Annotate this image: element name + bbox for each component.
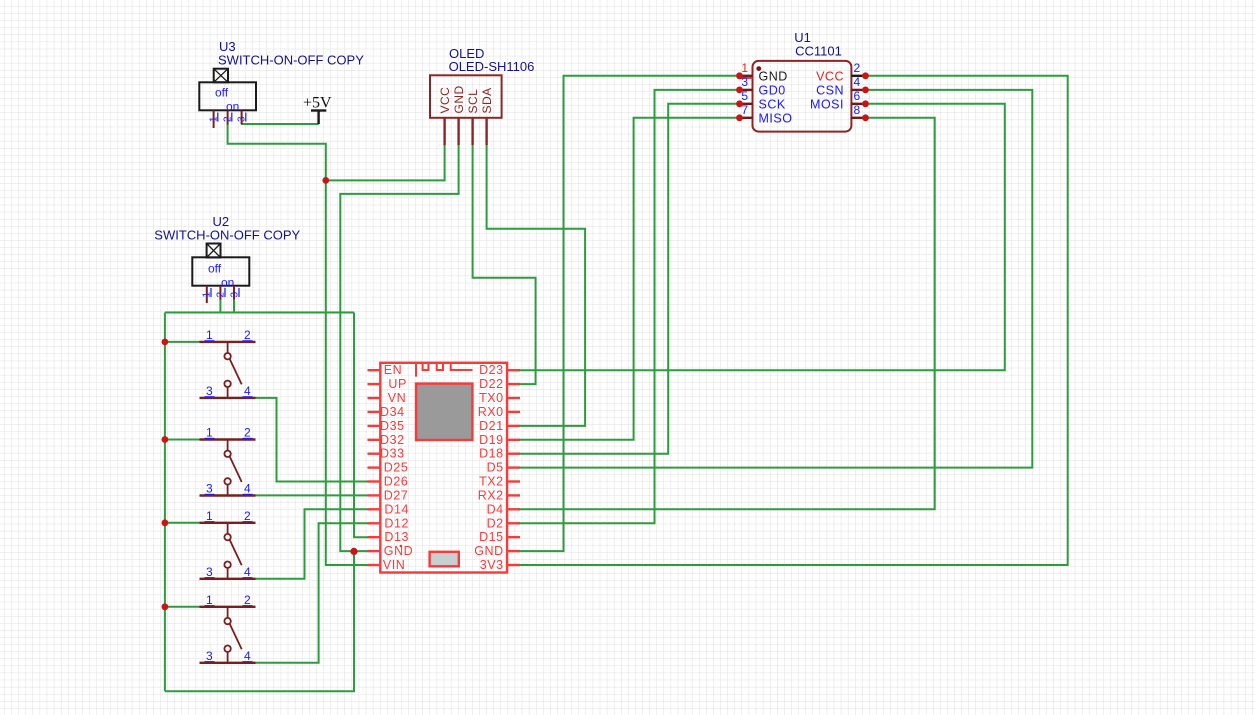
svg-text:GND: GND (384, 544, 413, 558)
svg-text:D12: D12 (384, 516, 409, 530)
svg-text:D13: D13 (384, 530, 409, 544)
svg-text:3: 3 (206, 482, 213, 496)
svg-text:2: 2 (244, 593, 251, 607)
svg-text:VCC: VCC (438, 87, 452, 114)
svg-text:off: off (215, 86, 229, 100)
svg-text:+5V: +5V (303, 95, 332, 112)
svg-text:4: 4 (244, 565, 251, 579)
svg-text:GND: GND (759, 70, 788, 84)
svg-text:3V3: 3V3 (480, 558, 504, 572)
svg-text:TX0: TX0 (479, 391, 504, 405)
svg-text:3: 3 (206, 565, 213, 579)
svg-text:D19: D19 (479, 433, 504, 447)
svg-text:GND: GND (452, 85, 466, 113)
svg-text:EN: EN (384, 363, 402, 377)
svg-text:SCK: SCK (759, 98, 786, 112)
svg-text:D26: D26 (384, 475, 409, 489)
svg-text:D23: D23 (479, 363, 504, 377)
svg-text:D2: D2 (487, 516, 504, 530)
svg-text:3: 3 (206, 384, 213, 398)
svg-text:CSN: CSN (816, 84, 844, 98)
svg-text:6: 6 (854, 89, 861, 103)
svg-text:TX2: TX2 (479, 475, 504, 489)
svg-text:4: 4 (854, 75, 861, 89)
svg-text:SDA: SDA (480, 87, 494, 113)
svg-text:8: 8 (854, 103, 861, 117)
svg-text:off: off (208, 262, 222, 276)
svg-text:1: 1 (206, 509, 213, 523)
svg-text:D4: D4 (487, 502, 504, 516)
svg-text:MOSI: MOSI (810, 98, 844, 112)
svg-text:D32: D32 (380, 433, 405, 447)
svg-text:D22: D22 (479, 377, 504, 391)
svg-text:on: on (221, 276, 234, 290)
svg-text:D25: D25 (384, 461, 409, 475)
svg-text:2: 2 (244, 426, 251, 440)
svg-text:D5: D5 (487, 461, 504, 475)
svg-text:1: 1 (206, 426, 213, 440)
svg-text:MISO: MISO (759, 112, 793, 126)
svg-text:VN: VN (388, 391, 406, 405)
svg-text:2: 2 (854, 61, 861, 75)
svg-text:D21: D21 (479, 419, 504, 433)
svg-text:CC1101: CC1101 (795, 44, 842, 59)
svg-text:GD0: GD0 (759, 84, 786, 98)
svg-text:D34: D34 (380, 405, 405, 419)
svg-text:1: 1 (206, 593, 213, 607)
svg-text:D35: D35 (380, 419, 405, 433)
svg-text:D15: D15 (479, 530, 504, 544)
svg-text:1: 1 (741, 61, 748, 75)
svg-text:D14: D14 (384, 502, 409, 516)
svg-text:OLED-SH1106: OLED-SH1106 (449, 59, 535, 74)
svg-text:RX0: RX0 (478, 405, 504, 419)
svg-text:GND: GND (474, 544, 503, 558)
svg-text:D18: D18 (479, 447, 504, 461)
svg-text:3: 3 (206, 649, 213, 663)
svg-text:4: 4 (244, 384, 251, 398)
svg-text:D33: D33 (380, 447, 405, 461)
svg-text:SWITCH-ON-OFF COPY: SWITCH-ON-OFF COPY (218, 53, 364, 68)
svg-text:4: 4 (244, 482, 251, 496)
svg-text:VCC: VCC (816, 70, 844, 84)
svg-text:SCL: SCL (466, 89, 480, 114)
svg-text:RX2: RX2 (478, 488, 504, 502)
svg-text:UP: UP (388, 377, 406, 391)
svg-text:D27: D27 (384, 488, 409, 502)
svg-text:2: 2 (244, 509, 251, 523)
svg-text:2: 2 (244, 328, 251, 342)
svg-text:VIN: VIN (383, 558, 406, 572)
svg-text:SWITCH-ON-OFF COPY: SWITCH-ON-OFF COPY (154, 228, 300, 243)
svg-text:1: 1 (206, 328, 213, 342)
svg-text:4: 4 (244, 649, 251, 663)
